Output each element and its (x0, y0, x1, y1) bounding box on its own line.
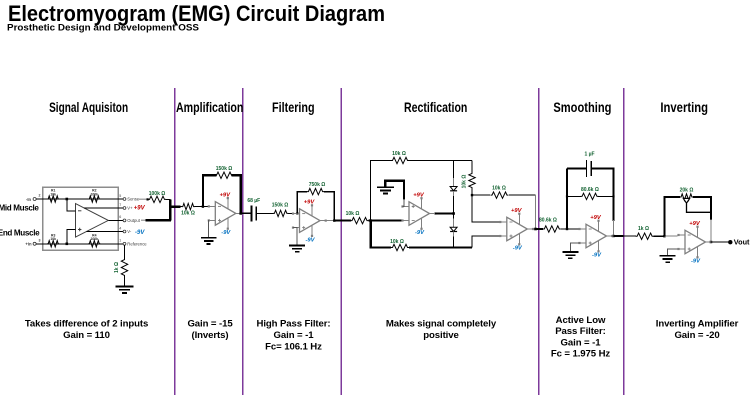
wire output node to amplification (170, 205, 181, 207)
wire rect left vertical down (371, 221, 391, 248)
svg-text:10k Ω: 10k Ω (346, 211, 360, 217)
svg-text:10k Ω: 10k Ω (390, 239, 404, 245)
wire smooth fb resistor row left (567, 195, 581, 197)
resistor R8 150k amp feedback (215, 166, 233, 179)
wire smooth ground (570, 243, 579, 252)
svg-text:750k Ω: 750k Ω (309, 182, 326, 188)
resistor R5 1k reference (114, 258, 128, 277)
op-amp U5 rectifier second (499, 213, 534, 246)
wire inv feedback right bottom (710, 219, 712, 242)
svg-text:Mid Muscle: Mid Muscle (0, 203, 39, 212)
wire filter ground (293, 228, 297, 246)
caption Gain = -15 (187, 319, 233, 341)
wire fb node down to minus (472, 195, 500, 222)
svg-text:+9V: +9V (413, 193, 425, 199)
svg-text:Gain = -1: Gain = -1 (274, 330, 315, 341)
wire bottom rail up to plus (472, 236, 500, 248)
resistor R11 10k rect input (346, 211, 369, 224)
junction rect output (534, 228, 537, 231)
svg-text:100k: 100k (91, 237, 99, 241)
wire filter node to opamp (293, 212, 297, 214)
wire pin 5 stub (118, 198, 123, 200)
svg-text:Sense: Sense (127, 197, 140, 202)
diode D1 (450, 187, 457, 191)
pin circle 6 (123, 219, 126, 222)
wire amp output to cap (241, 212, 252, 214)
svg-text:-In: -In (26, 197, 32, 202)
wire smooth output to inverting (614, 235, 624, 237)
svg-text:positive: positive (423, 330, 458, 341)
svg-text:Fc= 106.1 Hz: Fc= 106.1 Hz (265, 341, 322, 352)
wire rect bottom rail right (409, 246, 472, 248)
wire -In stub (36, 198, 43, 200)
svg-text:6: 6 (119, 215, 121, 219)
wire diode D1 lead top (453, 178, 455, 187)
wire U5 output (532, 228, 536, 230)
junction smooth fb right (612, 195, 614, 197)
svg-text:Inverting: Inverting (660, 100, 708, 115)
svg-text:Active Low: Active Low (556, 315, 606, 326)
wire reference down (124, 245, 126, 258)
diode D2 (450, 227, 457, 231)
svg-text:V+: V+ (127, 206, 133, 211)
svg-text:+9V: +9V (304, 200, 316, 206)
wire top rail to R14 (471, 161, 473, 173)
ground reference (116, 287, 134, 293)
junction rect input node (369, 219, 372, 222)
svg-text:Vout: Vout (734, 237, 750, 246)
svg-text:3: 3 (39, 238, 41, 242)
wire pin 6 stub (118, 219, 123, 221)
svg-text:80.6k Ω: 80.6k Ω (539, 217, 557, 223)
ground rect (377, 187, 394, 193)
wire U1 top row (43, 198, 118, 200)
resistor R15 10k rect feedback (491, 186, 509, 199)
svg-text:Gain = -1: Gain = -1 (561, 337, 602, 348)
resistor R14 10k rect vertical (461, 172, 475, 189)
section divider 3 (340, 88, 342, 395)
caption Takes difference of 2 inputs (25, 319, 148, 341)
svg-text:10k Ω: 10k Ω (392, 151, 406, 157)
section divider 5 (623, 88, 625, 395)
wire U1 output line (108, 219, 118, 221)
wire smooth cap row left (567, 168, 587, 170)
U1 minus sign (78, 210, 81, 212)
wire diode D1 lead bottom (453, 191, 455, 196)
svg-text:V-: V- (127, 229, 132, 234)
svg-text:Gain = -20: Gain = -20 (674, 330, 719, 341)
wire U1 minus input (67, 199, 76, 211)
capacitor C1 68uF (247, 198, 260, 221)
wire amp input lead (180, 206, 182, 208)
junction inverting minus node (663, 235, 665, 237)
junction filter minus node (296, 212, 298, 214)
svg-text:10k: 10k (50, 237, 56, 241)
ground smooth (562, 252, 578, 258)
wire filter feedback right (324, 192, 334, 221)
wire sense to corner (166, 198, 170, 200)
svg-text:1: 1 (119, 239, 121, 243)
svg-text:Gain = -15: Gain = -15 (187, 319, 233, 330)
svg-text:100k Ω: 100k Ω (149, 191, 166, 197)
junction filter output (333, 219, 335, 221)
wire rect fb vertical (535, 195, 537, 229)
wire rect input to node (369, 220, 403, 222)
pin circle 7 (123, 207, 126, 210)
instrumentation amplifier U1 package box (43, 187, 118, 250)
wire smooth fb left vertical (566, 169, 568, 230)
wire amp input to node (195, 206, 209, 208)
svg-text:Rectification: Rectification (404, 100, 467, 115)
wire inv ground (668, 249, 678, 256)
wire sense lead grey (139, 198, 146, 200)
wire filter feedback left (297, 192, 307, 214)
resistor R1 10k (47, 196, 59, 202)
junction amp output (239, 212, 242, 215)
wire inv feedback left vertical (664, 197, 680, 236)
pin circle 1 (123, 242, 126, 245)
svg-text:-9V: -9V (592, 253, 602, 259)
ground inverting (660, 256, 676, 262)
wire diode D2 lead bottom (453, 232, 455, 237)
resistor R6 100k sense (148, 191, 166, 202)
wire U1 bottom row (43, 243, 118, 245)
svg-text:2: 2 (39, 194, 41, 198)
resistor R4 100k (88, 241, 100, 247)
wire rect ground to plus input (403, 199, 404, 207)
wire amp feedback left vertical (203, 175, 217, 206)
wire diode D2 lead top (453, 219, 455, 228)
wire pin 7 stub (118, 207, 123, 209)
svg-text:20k Ω: 20k Ω (680, 188, 694, 194)
potentiometer R19 wiper arrow (683, 198, 689, 203)
section divider 1 (174, 88, 176, 395)
wire smooth cap row right (591, 169, 613, 222)
svg-text:Smoothing: Smoothing (553, 100, 611, 115)
junction inverting output (710, 241, 713, 244)
junction smooth output (612, 235, 615, 238)
caption High Pass Filter: (256, 319, 330, 353)
op-amp U7 inverting (677, 226, 712, 259)
svg-text:-9V: -9V (691, 259, 701, 265)
svg-text:End Muscle: End Muscle (0, 228, 40, 237)
resistor R12 10k rect top (391, 151, 409, 164)
wire output lead grey (141, 219, 146, 221)
wire reference resistor to ground (124, 277, 126, 287)
wire smooth fb resistor row right (598, 195, 614, 197)
resistor R16 80.6k smoothing input (539, 217, 561, 232)
svg-text:Pass Filter:: Pass Filter: (555, 326, 606, 337)
svg-text:10k Ω: 10k Ω (492, 186, 506, 192)
capacitor C2 1uF (584, 152, 594, 177)
resistor R10 750k filter feedback (307, 182, 325, 195)
wire sense jumper vertical (169, 199, 171, 220)
op-amp U6 smoothing (578, 220, 613, 253)
resistor R2 100k (88, 196, 100, 202)
svg-text:Prosthetic Design and Developm: Prosthetic Design and Development OSS (7, 23, 199, 33)
caption Active Low (551, 315, 611, 360)
svg-text:Signal Aquisiton: Signal Aquisiton (49, 100, 128, 115)
junction smooth fb left (566, 195, 568, 197)
svg-text:150k Ω: 150k Ω (272, 203, 289, 209)
resistor R13 10k rect bottom (390, 239, 409, 251)
wire D2 to bottom rail (453, 237, 455, 248)
wire amp feedback right (232, 175, 241, 213)
pin circle 5 (123, 198, 126, 201)
svg-text:Reference: Reference (127, 242, 147, 247)
svg-text:Output: Output (127, 218, 140, 223)
svg-text:Inverting Amplifier: Inverting Amplifier (656, 319, 739, 330)
wire diode chain top (453, 161, 455, 178)
svg-text:10k Ω: 10k Ω (461, 175, 467, 189)
pin circle -In (33, 198, 36, 201)
wire cap to resistor (256, 212, 273, 214)
wire fb node to R15 (472, 194, 490, 196)
wire pin 4 stub (118, 231, 123, 233)
section divider 2 (242, 88, 244, 395)
svg-text:80.6k Ω: 80.6k Ω (581, 187, 599, 193)
ground filter (289, 246, 305, 252)
potentiometer R19 20k (680, 188, 694, 201)
wire U4 output (435, 212, 454, 214)
svg-text:1k Ω: 1k Ω (638, 226, 649, 232)
svg-text:150k Ω: 150k Ω (216, 166, 233, 172)
junction rect fb node (471, 194, 473, 196)
svg-text:Makes signal completely: Makes signal completely (386, 319, 497, 330)
wire U1 V- line (87, 231, 118, 233)
op-amp U2 amplification (208, 197, 243, 230)
caption Makes signal completely (386, 319, 497, 341)
svg-text:Fc = 1.975 Hz: Fc = 1.975 Hz (551, 349, 611, 360)
wire smooth fb right lower (613, 220, 615, 236)
junction diode node (452, 212, 455, 215)
section divider 4 (538, 88, 540, 395)
svg-text:-9V: -9V (221, 230, 231, 236)
wire rect output to smoothing (536, 228, 544, 230)
pin circle 4 (123, 230, 126, 233)
svg-text:+9V: +9V (220, 192, 232, 198)
svg-text:68 µF: 68 µF (247, 198, 260, 204)
svg-text:10k Ω: 10k Ω (181, 211, 195, 217)
svg-text:100k: 100k (91, 192, 99, 196)
wire filter opamp output (325, 220, 335, 222)
op-amp U4 rectifier first (401, 197, 436, 230)
wire U1 V+ line (84, 207, 118, 209)
svg-text:+In: +In (25, 242, 32, 247)
svg-text:+9V: +9V (689, 221, 701, 227)
wire amp ground (208, 220, 210, 237)
resistor R9 150k filter input (272, 203, 289, 217)
svg-text:10k: 10k (50, 192, 56, 196)
svg-text:Amplification: Amplification (176, 100, 244, 115)
svg-text:-9V: -9V (513, 246, 523, 252)
op-amp U1 internal triangle (76, 204, 109, 238)
junction sense lead (147, 198, 149, 200)
svg-text:-9V: -9V (305, 237, 315, 243)
resistor R17 80.6k smoothing feedback (581, 187, 599, 200)
ground amp (201, 238, 217, 244)
node Vout dot (728, 240, 732, 244)
wire rect left vertical up (371, 161, 391, 221)
svg-text:-9V: -9V (135, 230, 145, 236)
junction amp minus node (202, 205, 204, 207)
junction U1 minus node (66, 198, 69, 201)
wire pin 1 stub (118, 243, 123, 245)
svg-text:7: 7 (119, 203, 121, 207)
wire inverting input to node (653, 235, 664, 237)
junction smoothing minus node (566, 228, 568, 230)
wire inverting input lead (624, 235, 636, 237)
wire filter output to rect (334, 220, 351, 222)
svg-text:1 µF: 1 µF (584, 152, 594, 158)
svg-text:+9V: +9V (590, 215, 602, 221)
junction U1 plus node (66, 243, 69, 246)
svg-text:Takes difference of 2 inputs: Takes difference of 2 inputs (25, 319, 148, 330)
svg-text:1k Ω: 1k Ω (114, 262, 120, 273)
wire filter resistor to node (288, 212, 293, 214)
resistor R18 1k inverting input (636, 226, 654, 239)
svg-text:-9V: -9V (415, 230, 425, 236)
wire R15 to output vertical (509, 194, 536, 196)
svg-text:+9V: +9V (134, 206, 146, 212)
wire rect ground feed (385, 181, 404, 200)
wire inverting node to opamp (664, 235, 677, 237)
svg-text:(Inverts): (Inverts) (192, 330, 229, 341)
U1 plus sign (78, 228, 81, 231)
wire inv feedback right top (693, 197, 711, 220)
resistor R3 10k (47, 241, 59, 247)
svg-text:Gain = 110: Gain = 110 (63, 330, 110, 341)
svg-text:High Pass Filter:: High Pass Filter: (256, 319, 330, 330)
wire U1 plus input (67, 230, 76, 244)
pin circle +In (33, 242, 36, 245)
wire D1 to node (453, 196, 455, 218)
wire rect top rail right (409, 160, 472, 162)
svg-text:5: 5 (119, 194, 121, 198)
svg-text:4: 4 (119, 226, 121, 230)
wire output thick (146, 219, 171, 221)
wire +In stub (36, 243, 43, 245)
caption Inverting Amplifier (656, 319, 739, 341)
wire R14 to fb node (471, 189, 473, 195)
svg-text:Filtering: Filtering (272, 100, 315, 115)
svg-text:+9V: +9V (511, 208, 523, 214)
resistor R7 10k amp input (181, 203, 195, 216)
wire Vout (711, 241, 729, 243)
op-amp U3 filtering (292, 204, 327, 237)
wire smoothing input to node (561, 228, 580, 230)
